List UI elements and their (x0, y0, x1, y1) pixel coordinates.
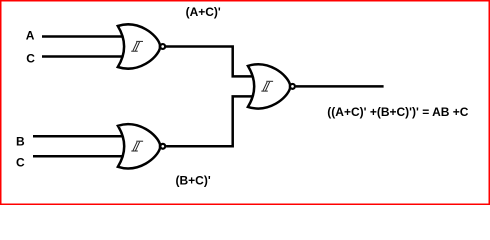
svg-text:B: B (16, 134, 25, 148)
svg-text:(A+C)': (A+C)' (186, 5, 221, 19)
svg-text:C: C (26, 52, 35, 66)
wire input C (top) (42, 55, 126, 58)
NOR gate U2 (inputs B, C) (118, 124, 165, 168)
wire U2 output to U3 lower input (166, 96, 256, 146)
wire input C (bottom) (33, 155, 126, 158)
wire U3 output (296, 85, 384, 88)
svg-text:C: C (16, 156, 25, 170)
wire input A (42, 35, 126, 38)
NOR gate U3 (output stage) (248, 64, 295, 108)
NOR gate U1 (inputs A, C) (118, 24, 165, 68)
svg-text:((A+C)' +(B+C)')' = AB +C: ((A+C)' +(B+C)')' = AB +C (327, 105, 468, 119)
wire input B (33, 135, 126, 138)
svg-text:A: A (26, 29, 35, 43)
svg-text:(B+C)': (B+C)' (176, 174, 211, 188)
wire U1 output to U3 upper input (166, 47, 256, 77)
